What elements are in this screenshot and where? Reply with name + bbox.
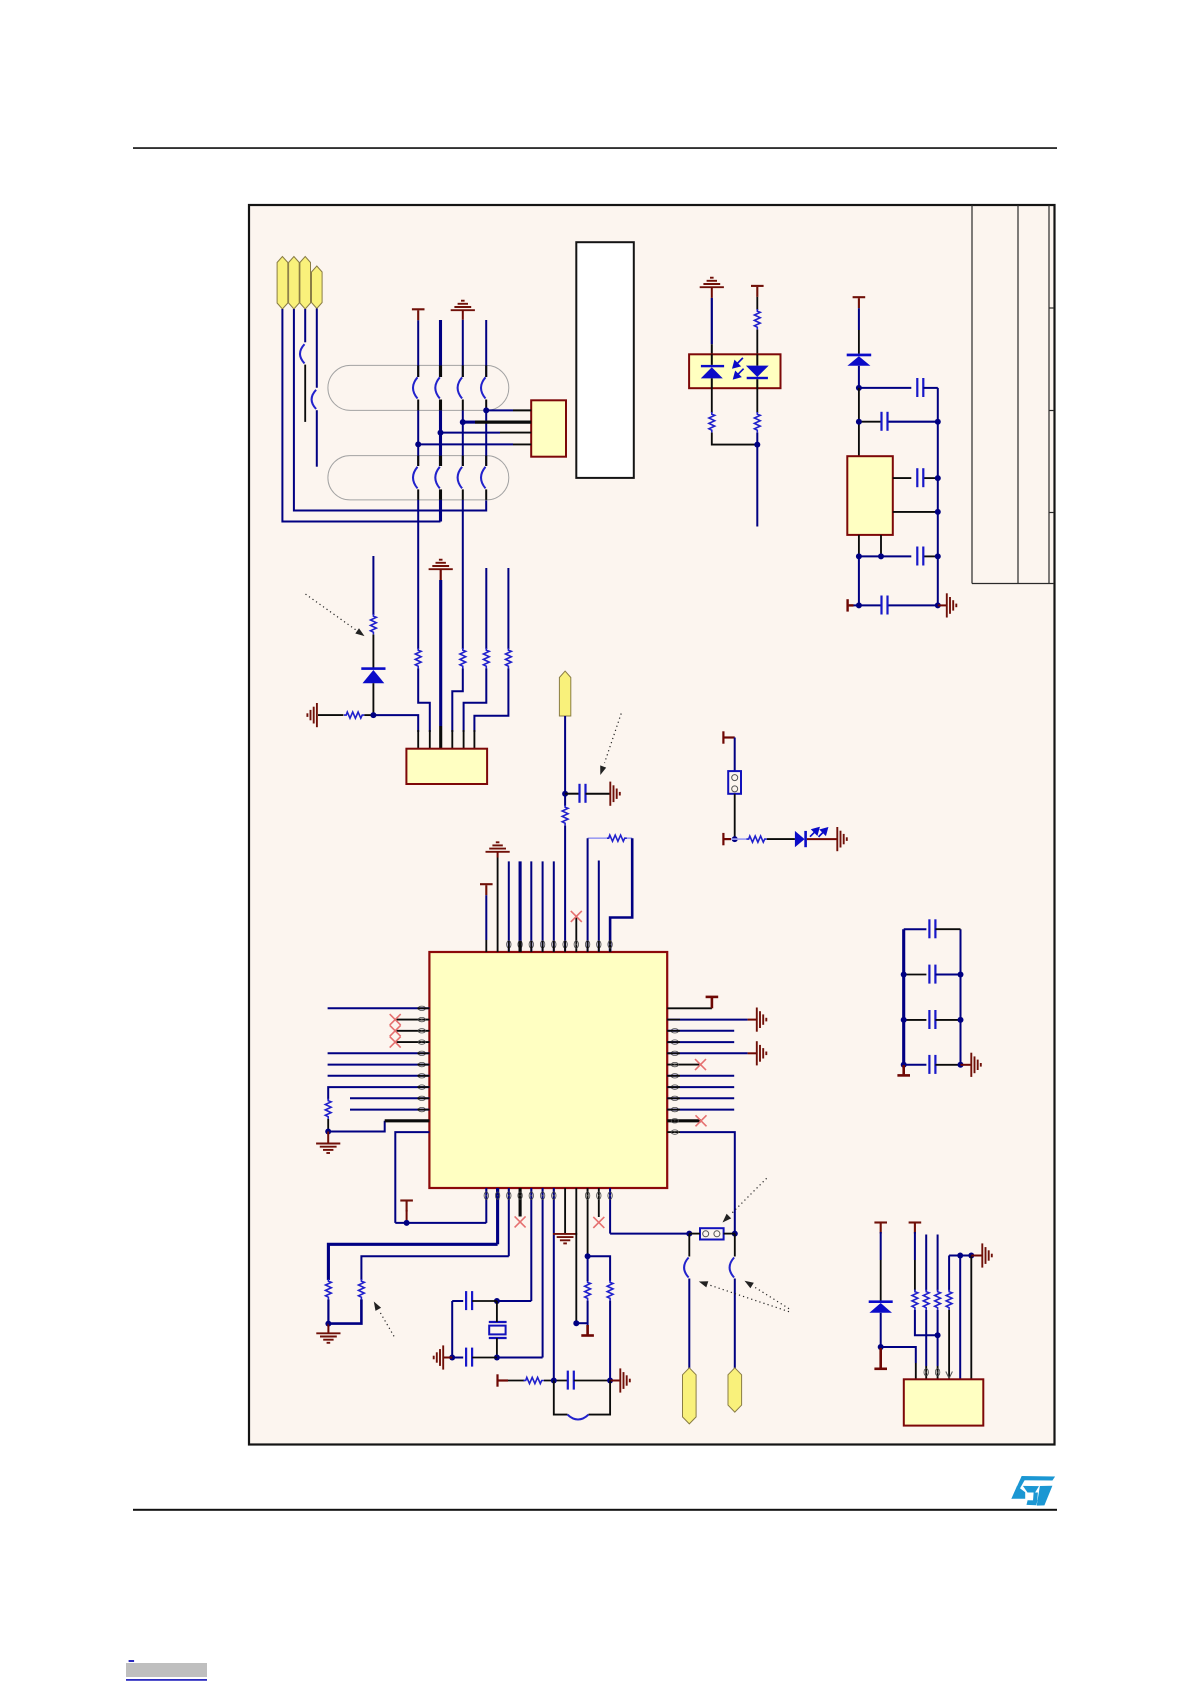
net flag F7 <box>728 1368 742 1412</box>
junction rail dots <box>957 1253 974 1259</box>
capacitor C22 row1 <box>904 919 961 938</box>
wire right pin10 <box>667 1109 734 1111</box>
wire column D lower plate <box>485 489 487 500</box>
connector J1 box <box>531 400 566 456</box>
wire C19 to junction right <box>574 1380 610 1382</box>
callout arrow A4 to C20 <box>699 1281 789 1311</box>
wire column C mid <box>462 400 464 467</box>
wire to G15 <box>610 1380 620 1382</box>
junction on column B for J1 pin3 <box>438 430 444 436</box>
wire right pin9 <box>667 1097 734 1099</box>
pin ovals J3 <box>924 1369 940 1376</box>
wire right pin12 to JP2 <box>667 1132 735 1234</box>
wire bottom pin7 to RC row <box>553 1188 555 1381</box>
wire to flag F7 <box>734 1279 736 1369</box>
wire column A to J2 pin2 <box>418 668 430 748</box>
wire column A lower <box>417 489 419 649</box>
earth ground G2 on thick ground column <box>429 560 453 570</box>
junction dots cap bank <box>901 972 964 1068</box>
junction C13 right <box>935 475 941 481</box>
wire bottom pin8 to G13 <box>564 1188 566 1233</box>
wire junction to R11 <box>731 838 747 840</box>
resistor R18 <box>524 1377 544 1383</box>
title block column lines <box>972 205 1054 584</box>
power tick sideways LED row <box>723 833 731 845</box>
opto light arrows <box>733 358 743 379</box>
junction pin9 node <box>573 1320 579 1326</box>
resistor R14 <box>326 1279 332 1299</box>
earth ground G13 <box>553 1234 577 1244</box>
wire R17 down to RC row <box>609 1301 611 1381</box>
wire R12 left lead to pin10 <box>588 838 607 952</box>
junction gnd node left <box>325 1129 331 1135</box>
junction bottom row dots <box>856 602 941 608</box>
wire gnd node riser to left pin11 thick <box>328 1121 429 1132</box>
pin ovals MCU bottom <box>484 1192 612 1199</box>
capacitor C25 row4 <box>904 1055 961 1074</box>
resistor R22 <box>946 1290 952 1310</box>
resistor R16 below pin10 <box>585 1280 591 1300</box>
earth ground G12 <box>316 1333 340 1343</box>
junction pin10 node <box>585 1253 591 1259</box>
junction D4 out <box>878 1344 884 1350</box>
junction VCC6 <box>404 1220 410 1226</box>
resistor R3 on column E <box>483 648 489 668</box>
wire C16 to G6 <box>586 793 611 795</box>
wire JP2 pads <box>689 1233 735 1235</box>
wire VCC3 to D2 <box>858 308 860 354</box>
wire column E to J2 pin5 <box>464 668 487 748</box>
earth ground G3 sideways left <box>307 703 317 727</box>
power bar VCC6 on pin1 rail <box>400 1201 413 1212</box>
capacitor C18 <box>452 1348 497 1367</box>
wire to flag F6 <box>688 1279 690 1369</box>
wire left pin4 stub <box>395 1041 429 1043</box>
net flag F2 <box>289 257 300 310</box>
capacitor C5 column B row1 <box>435 377 440 398</box>
wire R20 to J3 pin2 <box>925 1310 927 1379</box>
junction F5 node <box>562 791 568 797</box>
wire R20 column <box>925 1235 927 1291</box>
wire right pin1 to VCC5 <box>667 1007 712 1009</box>
resistor R4 on column F <box>506 648 512 668</box>
wire R18 to junction <box>544 1380 568 1382</box>
callout arrow A3 to JP2 <box>723 1178 767 1222</box>
earth ground G5 sideways right <box>947 593 957 617</box>
net flag F5 <box>559 671 570 716</box>
no-ERC X left pin4 <box>390 1037 401 1048</box>
callout arrow A2 to C16 <box>600 714 621 776</box>
net flag F4 <box>312 266 323 309</box>
wire ground column thick <box>440 569 442 749</box>
wire left pin6 <box>328 1064 430 1066</box>
power tick sideways RC row <box>498 1374 509 1386</box>
wire bottom pin3 to R15 <box>361 1188 508 1280</box>
connector J3 box <box>904 1379 984 1425</box>
wire right pin5 to G11 <box>667 1052 756 1054</box>
wire top pin5 <box>530 861 532 952</box>
junction on column C for J1 pin2 <box>460 419 466 425</box>
capacitor C12 <box>882 412 888 431</box>
wire column C lower <box>462 489 464 649</box>
junction out2 right <box>935 509 941 515</box>
wire R21 to J3 pin3 <box>937 1310 939 1379</box>
wire left pin5 <box>328 1052 430 1054</box>
LED D3 arrows <box>810 828 827 837</box>
wire bottom pin5 to crystal top <box>497 1188 531 1301</box>
wire left pin1 <box>328 1007 430 1009</box>
wire right pin4 <box>667 1041 734 1043</box>
capacitor C3 column A row1 <box>413 377 418 398</box>
wire left rail lower <box>858 556 860 605</box>
wire inductor loop <box>554 1381 610 1415</box>
capacitor C1 on flag3 wire <box>300 344 305 422</box>
wire R9 down dangling <box>756 433 758 527</box>
wire opto right leg down <box>756 388 758 413</box>
power bar VCC1 on column A <box>412 309 425 320</box>
junction R19/R21 <box>935 1332 941 1338</box>
wire R21 column <box>937 1235 939 1291</box>
wire flag4 down <box>316 309 318 388</box>
capacitor C20 arc <box>684 1258 689 1278</box>
wire U4 bottom stubs <box>859 535 881 557</box>
opto LED <box>701 354 724 388</box>
resistor R9 <box>754 412 760 432</box>
ST logo <box>1011 1476 1055 1506</box>
earth ground G17 sideways right <box>982 1243 992 1267</box>
wire top pin9 stub <box>575 916 577 952</box>
resistor R17 <box>607 1280 613 1300</box>
resistor R10 below F5 node <box>562 805 568 825</box>
wire left rail upper <box>858 388 860 456</box>
wire column F upper <box>507 568 509 649</box>
wire gnd row C14 <box>859 555 938 557</box>
wire bottom pin6 to crystal bottom <box>497 1188 543 1358</box>
resistor R5 pull-up <box>371 614 377 634</box>
opto photodiode <box>746 354 769 388</box>
wire top pin4 thick <box>519 861 522 952</box>
wire right pin6 stub <box>667 1064 700 1066</box>
wire rail to G17 <box>971 1255 982 1257</box>
wire R19 to junction row <box>915 1310 938 1335</box>
earth ground G16 sideways right <box>971 1053 981 1077</box>
power bar inverted below D4 <box>874 1348 887 1369</box>
MCU U1 body <box>429 952 667 1188</box>
wire cap bank left rail thick <box>902 929 905 1065</box>
power tick sideways bottom row <box>848 599 854 611</box>
jumper JP2 horizontal <box>700 1228 724 1239</box>
earth ground G10 sideways right <box>757 1008 767 1032</box>
wire rail to J3 pin5 <box>959 1256 961 1380</box>
wire VCC7 to D4 <box>880 1232 882 1301</box>
wire flag1 down <box>282 309 440 522</box>
wire tick to JP1 <box>734 738 736 772</box>
page number link box <box>126 1660 207 1681</box>
earth ground G8 top pin2 <box>486 842 510 852</box>
wire bottom pin1 <box>395 1188 486 1223</box>
wire G12 stem <box>327 1324 329 1333</box>
wire J1 pin1 <box>486 409 531 411</box>
junction RC right <box>607 1378 613 1384</box>
resistor R7 <box>754 309 760 329</box>
wire R8 to junction <box>712 433 758 445</box>
net flag F6 <box>683 1368 697 1424</box>
wire D4 junction to J3 pin1 <box>881 1347 916 1379</box>
schematic sheet background and border <box>249 205 1055 1445</box>
capacitor C24 row3 <box>904 1010 961 1029</box>
capacitor C16 <box>580 784 586 803</box>
wire R12 right lead loop to pin12 <box>610 838 632 952</box>
wire thick column B lower <box>439 489 442 521</box>
junction crystal top <box>494 1298 500 1304</box>
wire R15 to gnd node <box>328 1299 361 1323</box>
junction gnd row dots <box>856 553 941 559</box>
wire tick to R18 <box>508 1380 525 1382</box>
connector U2 white outline <box>576 242 634 478</box>
wire column C to J2 pin4 <box>452 668 463 748</box>
wire D4 to junction <box>880 1313 882 1347</box>
capacitor C19 <box>568 1371 574 1390</box>
wire junction to J2 pin1 <box>373 715 418 749</box>
header rule <box>133 147 1057 149</box>
earth ground G11 sideways right <box>757 1041 767 1065</box>
power bar VCC5 <box>706 997 719 1008</box>
callout arrow A1 to R5 <box>306 594 365 636</box>
wire bottom pin12 to JP2 <box>610 1188 689 1234</box>
ribbon cable P1 outline <box>328 365 509 410</box>
wire R13 to gnd node <box>327 1119 329 1132</box>
no-ERC X bottom pin4 <box>515 1216 526 1227</box>
callout arrow A6 to R15 <box>374 1302 394 1337</box>
net flag F3 <box>300 257 311 310</box>
resistor R21 <box>935 1290 941 1310</box>
junction JP2 left <box>686 1231 692 1237</box>
wire bottom pin10 to junction <box>587 1188 589 1256</box>
power bar VCC2 above opto <box>751 286 764 297</box>
wire to G5 <box>938 604 947 606</box>
resistor R6 horizontal <box>344 712 373 718</box>
power bar VCC7 <box>874 1223 887 1234</box>
ribbon cable P2 outline <box>328 456 509 500</box>
wire D2 to node A <box>858 366 860 388</box>
wire left pin9 <box>350 1097 429 1099</box>
capacitor C8 column C row2 <box>458 467 463 489</box>
wire rail to J3 pin6 <box>970 1256 972 1380</box>
resistor R11 <box>747 836 767 842</box>
wire top pin7 <box>553 861 555 952</box>
wire D1 to junction <box>372 683 374 715</box>
arrowhead marker J3 pin4 <box>946 1372 953 1379</box>
wire node A row C11 <box>859 387 911 389</box>
wire right pin3 <box>667 1030 734 1032</box>
resistor R13 <box>325 1099 331 1119</box>
jumper JP1 vertical <box>728 771 741 794</box>
wire pin10 node to column 610 <box>588 1256 611 1281</box>
callout arrow A5 to C21 <box>745 1281 790 1309</box>
wire crystal caps left rail <box>451 1301 453 1358</box>
wire R16 top lead <box>587 1256 589 1281</box>
junction on column D for J1 pin1 <box>483 407 489 413</box>
junction dot opto output <box>754 442 760 448</box>
optocoupler U3 box <box>689 354 780 388</box>
wire D3 to G7 <box>807 838 837 840</box>
junction crystal bottom <box>494 1355 500 1361</box>
earth ground G1 above column C <box>451 301 475 311</box>
junction bottom-left gnd <box>325 1321 331 1327</box>
junction RC left <box>551 1378 557 1384</box>
LED D3 <box>795 831 807 847</box>
wire top pin1 <box>485 895 487 952</box>
diode D4 <box>869 1300 893 1312</box>
junction caps rail <box>449 1355 455 1361</box>
wire column F to J2 pin6 <box>474 668 508 748</box>
resistor R15 <box>359 1279 365 1299</box>
footer rule <box>133 1509 1057 1511</box>
power bar VCC8 <box>909 1223 922 1234</box>
wire flag3 down <box>304 309 306 342</box>
wire R5 to D1 <box>372 635 374 668</box>
wire left pin3 stub <box>395 1030 429 1032</box>
capacitor C2 on flag4 wire <box>312 390 317 467</box>
capacitor C11 <box>917 378 923 397</box>
capacitor C21 arc <box>730 1258 735 1278</box>
regulator U4 box <box>847 456 893 535</box>
wire column D upper <box>485 320 487 377</box>
wire left pin7 <box>328 1075 430 1077</box>
resistor R19 <box>912 1290 918 1310</box>
capacitor C9 column D row1 <box>481 377 486 398</box>
junction node B left <box>856 419 862 425</box>
pin ovals MCU right <box>671 1029 678 1135</box>
wire R22 column top <box>948 1256 950 1291</box>
wire bottom pin2 thick to R14 <box>328 1188 497 1280</box>
wire column D mid <box>485 400 487 467</box>
earth ground G9 <box>316 1144 340 1154</box>
wire R7 to opto <box>756 330 758 355</box>
wire column E upper <box>485 568 487 649</box>
no-ERC X right pin11 <box>696 1115 707 1126</box>
wire left pin10 <box>350 1109 429 1111</box>
resistor R2 on column C <box>460 648 466 668</box>
wire top pin6 <box>542 861 544 952</box>
wire bottom row C15 <box>854 604 938 606</box>
capacitor C7 column C row1 <box>458 377 463 398</box>
wire U4 out2 <box>893 511 938 513</box>
wire column A mid <box>417 400 419 467</box>
wire right pin2 to G10 <box>667 1019 756 1021</box>
junction LED row <box>732 836 738 842</box>
wire VCC2 to R7 <box>756 297 758 310</box>
net flag F1 <box>277 257 288 310</box>
wire R10 to MCU pin <box>564 826 566 953</box>
power bar inverted cap bank <box>897 1065 910 1075</box>
junction on column A for J1 pin4 <box>415 441 421 447</box>
MCU pin stubs black <box>417 941 680 1200</box>
wire C11 to right rail <box>923 387 938 389</box>
resistor R8 <box>709 412 715 432</box>
crystal Y1 <box>489 1301 507 1358</box>
wire flag2 down <box>294 309 486 511</box>
wire thick column B mid <box>439 400 442 467</box>
no-ERC X bottom pin11 <box>593 1217 604 1228</box>
no-ERC X left pin2 <box>390 1014 401 1025</box>
power bar VCC4 top pin1 <box>480 884 493 895</box>
wire top pin11 <box>598 861 600 953</box>
wire J1 pin3 <box>441 432 532 434</box>
wire left flag column <box>688 1234 690 1257</box>
capacitor C4 column A row2 <box>413 467 418 489</box>
earth ground G6 sideways right <box>610 782 620 806</box>
wire top pin3 <box>508 861 510 952</box>
wire thick column B <box>439 320 442 377</box>
wire bottom pin4 thick stub <box>519 1188 522 1217</box>
no-ERC X left pin3 <box>390 1025 401 1036</box>
wire pull-up branch top <box>372 556 374 615</box>
wire G9 stem <box>327 1132 329 1144</box>
earth ground G4 above opto <box>700 278 724 288</box>
wire right flag column <box>734 1234 736 1257</box>
wire VCC8 to R19 <box>914 1232 916 1291</box>
wire F5 down <box>564 716 566 806</box>
capacitor C6 column B row2 <box>435 467 440 489</box>
pin ovals MCU top <box>507 941 613 948</box>
capacitor C17 <box>452 1291 497 1310</box>
earth ground G7 sideways right <box>837 827 847 851</box>
wire opto left leg down <box>711 388 713 413</box>
wire right rail <box>937 388 939 606</box>
wire node B row C12 <box>859 421 938 423</box>
wire bottom pin11 stub <box>598 1188 600 1217</box>
diode D1 <box>361 667 385 683</box>
wire J1 pin2 thick <box>463 421 531 424</box>
wire G3 to R6 <box>318 714 344 716</box>
capacitor C13 <box>917 468 923 487</box>
capacitor C15 <box>882 596 888 615</box>
junction dot pull-up node <box>370 712 376 718</box>
capacitor C10 column D row2 <box>481 467 486 489</box>
wire F5 node to C16 <box>565 793 579 795</box>
resistor R12 feedback <box>607 835 627 841</box>
capacitor C23 row2 <box>904 965 961 984</box>
capacitor C14 <box>917 547 923 566</box>
wire cap bank right rail <box>960 929 962 1065</box>
wire R14 to gnd node <box>327 1299 329 1323</box>
resistor R1 on column A <box>415 648 421 668</box>
earth ground G14 sideways left <box>434 1345 444 1369</box>
power bar inverted below pin9 node <box>581 1325 594 1336</box>
diode D2 <box>847 354 872 366</box>
wire to G16 <box>961 1064 972 1066</box>
junction node B right <box>935 419 941 425</box>
no-ERC X right pin6 <box>695 1059 706 1070</box>
no-ERC X top pin9 <box>571 911 582 922</box>
wire ground rail bottom-right <box>949 1255 971 1257</box>
wire G4 to opto <box>711 287 713 354</box>
wire left pin2 stub <box>395 1019 429 1021</box>
earth ground G15 sideways right <box>620 1368 630 1392</box>
wire top pin2 <box>497 852 499 952</box>
wire R11 to LED D3 <box>767 838 795 840</box>
wire right pin7 <box>667 1075 734 1077</box>
wire left pin8 to R13 <box>328 1087 429 1099</box>
power bar VCC3 <box>853 297 866 308</box>
inductor arc L1 <box>568 1415 589 1420</box>
wire JP1 down <box>734 794 736 839</box>
power tick sideways JP top <box>723 731 734 743</box>
resistor R20 <box>923 1290 929 1310</box>
wire right pin8 <box>667 1086 734 1088</box>
wire right pin11 thick stub <box>667 1119 701 1122</box>
